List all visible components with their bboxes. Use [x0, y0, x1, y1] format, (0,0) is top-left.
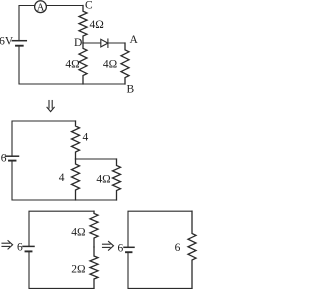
svg-text:D: D [74, 37, 82, 49]
wire: row3-right left+top [128, 211, 192, 247]
wire: ammeter to node C [46, 5, 83, 7]
diode D1 [101, 39, 108, 47]
arrow double-down [47, 101, 54, 112]
wire: circuit2 left+top [12, 121, 76, 156]
svg-text:6: 6 [175, 242, 181, 254]
resistor 4 (top, circuit2) [72, 121, 80, 159]
ammeter U1 [35, 1, 47, 13]
svg-text:6V: 6V [0, 36, 14, 48]
svg-text:6: 6 [1, 152, 7, 164]
svg-text:4Ω: 4Ω [96, 173, 110, 185]
battery 6 plates c2 [6, 155, 19, 157]
svg-text:4Ω: 4Ω [90, 19, 104, 31]
svg-text:2Ω: 2Ω [71, 264, 85, 276]
wire: row3-left left+top [29, 211, 94, 246]
arrow double-right (right) [103, 241, 114, 250]
wire: row3-right bottom [128, 252, 192, 288]
resistor 4 (lower-left c2) [72, 159, 80, 200]
svg-text:A: A [37, 3, 45, 14]
svg-text:4: 4 [59, 172, 65, 184]
wire: diode to node A [108, 42, 125, 44]
svg-text:4: 4 [83, 132, 89, 144]
wire: row3-left bottom [29, 251, 94, 288]
resistor 6 (row3 right) [188, 211, 196, 288]
battery plates row3-left [23, 245, 34, 247]
resistor 4ohm (right c2) [113, 159, 121, 200]
svg-text:6: 6 [17, 242, 23, 254]
svg-text:6: 6 [118, 243, 124, 255]
wire: circuit2 bottom [12, 161, 117, 200]
svg-text:C: C [85, 0, 93, 12]
wire: circuit1 bottom [19, 46, 125, 84]
resistor 4ohm (row3 left) [90, 211, 98, 247]
wire: circuit1 top-left (battery top to ammeter) [19, 6, 35, 41]
svg-text:B: B [127, 84, 135, 96]
svg-text:A: A [130, 34, 139, 46]
resistor 4ohm D-bottom [79, 43, 87, 84]
battery plates row3-right [124, 246, 134, 248]
wire: D to diode [83, 42, 101, 44]
svg-text:4Ω: 4Ω [65, 59, 79, 71]
arrow double-right (left) [2, 241, 13, 249]
resistor 4ohm A-B [121, 43, 129, 84]
resistor 2ohm (row3 left) [90, 247, 98, 288]
svg-text:4Ω: 4Ω [103, 59, 117, 71]
resistor 4ohm C-D [79, 6, 87, 44]
svg-text:4Ω: 4Ω [71, 226, 85, 238]
battery 6V plates [12, 40, 26, 42]
wire: middle c2 [76, 158, 117, 160]
